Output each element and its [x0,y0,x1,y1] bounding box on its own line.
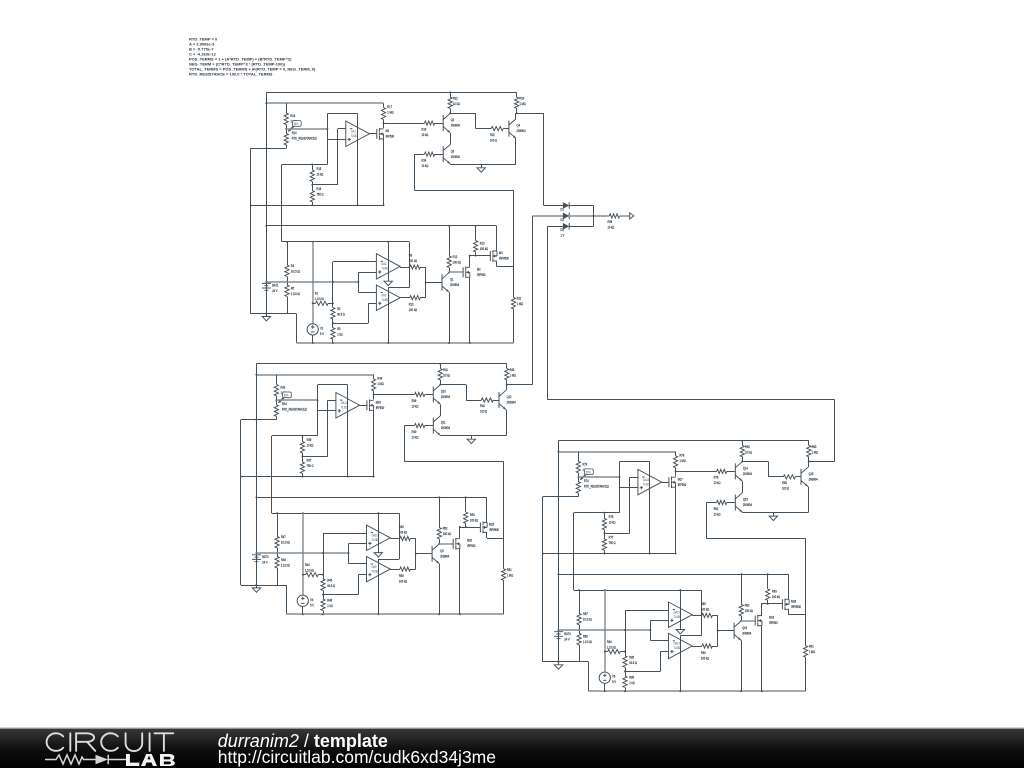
wire [302,606,304,614]
junction [808,461,810,463]
wire to M gate [449,271,463,273]
junction [357,204,359,206]
wire [435,154,444,156]
wire - input stub [358,292,376,294]
wire second rail [266,102,383,104]
wire D2 anode [533,215,563,217]
voltage source V1 5 V [307,324,318,335]
svg-text:IRF530: IRF530 [769,621,778,626]
ground [554,665,562,669]
diode D2 [563,213,569,220]
wire [805,538,807,615]
svg-text:R46: R46 [327,598,332,603]
resistor R91 1M [804,615,808,691]
wire [450,113,476,115]
junction [603,532,605,534]
junction [276,552,278,554]
junction [438,613,440,615]
wire op-amp supply pins [378,513,380,552]
resistor R3 1k [331,328,335,340]
junction [465,496,467,498]
wire + input stub [318,410,336,412]
junction [302,613,304,615]
battery BAT1 24 V [262,283,271,290]
svg-text:R18: R18 [290,114,295,119]
junction [240,476,242,478]
voltage source V4 5 V [297,595,308,606]
wire [486,532,488,538]
svg-text:V5: V5 [612,674,615,679]
ground [467,439,475,443]
wire to Q base [416,553,432,555]
wire [303,574,306,576]
wire [313,303,316,305]
wire [276,416,278,419]
op-amp OA9 [367,556,391,581]
wire emitter [439,564,441,615]
MOSFET M3 (IRF9530) [490,250,497,262]
resistor R74 RTD_RESISTANCE [576,473,580,497]
node block 1 RTD channel [250,92,527,344]
resistor R92 100k [739,604,743,616]
svg-text:R92: R92 [745,603,750,608]
wire to M gate [741,620,755,622]
wire [465,523,467,527]
svg-text:24 V: 24 V [272,289,278,294]
svg-text:1 kΩ: 1 kΩ [629,680,635,685]
svg-text:IRF9530: IRF9530 [791,604,801,609]
transistor Q1 [442,273,449,292]
svg-text:R49: R49 [399,525,404,530]
transistor Q16 [801,467,808,486]
svg-text:IRF530: IRF530 [467,544,476,549]
transistor Q15 [735,493,742,512]
svg-text:10 kΩ: 10 kΩ [714,481,721,486]
svg-text:R93: R93 [772,589,777,594]
junction [415,553,417,555]
wire left bus 2 [240,420,242,585]
resistor R90 100k [692,644,718,648]
svg-text:1.10 kΩ: 1.10 kΩ [281,563,291,568]
wire [788,609,790,615]
junction [469,255,471,257]
svg-text:R73: R73 [583,462,588,467]
output terminal [630,213,634,219]
junction [265,225,267,227]
junction [312,342,314,344]
MOSFET M10 (IRF530) [453,538,460,550]
resistor R38 1M [372,379,376,395]
wire [625,610,627,656]
wire second rail [558,451,675,453]
op-amp OA11 [336,393,360,418]
wire supply rail [574,590,702,592]
svg-text:M1: M1 [386,129,390,134]
junction [741,440,743,442]
wire [506,385,508,391]
svg-text:R40: R40 [412,429,417,434]
wire left bus 2 [542,497,544,662]
resistor R47 10.2k [275,513,279,553]
transistor Q3 [443,145,450,164]
wire [727,502,736,504]
wire source [373,410,375,476]
junction [387,342,389,344]
junction [286,241,288,243]
ground [374,553,382,557]
potentiometer R73 (1 M) [576,452,586,481]
junction [439,363,441,365]
svg-text:R90: R90 [701,651,706,656]
svg-text:10 kΩ: 10 kΩ [714,512,721,517]
op-amp OA10 [367,525,391,550]
wire [604,533,629,535]
resistor R39 10k [415,392,425,396]
wire [420,267,425,269]
svg-text:TL081: TL081 [674,614,681,619]
svg-text:TL081: TL081 [674,646,681,651]
resistor R1 1.10k [313,301,333,305]
junction [332,281,334,283]
wire - input stub [651,640,669,642]
svg-text:10 kΩ: 10 kΩ [307,443,314,448]
wire [805,657,807,691]
wire [276,375,278,385]
svg-text:TL081: TL081 [381,266,388,271]
wire [440,405,442,417]
svg-text:750 Ω: 750 Ω [609,541,617,546]
resistor R78 1M [674,456,678,472]
junction [276,512,278,514]
svg-text:1.10 kΩ: 1.10 kΩ [583,640,593,645]
resistor R34 RTD_RESISTANCE [274,396,278,420]
svg-text:R81: R81 [745,444,750,449]
junction [265,204,267,206]
wire feedback to - input [629,477,631,533]
svg-text:2N3904: 2N3904 [441,426,450,431]
resistor R81 10k [740,445,744,456]
wire [358,575,360,595]
wire to terminal [620,215,630,217]
svg-text:50%: 50% [284,393,289,398]
wire [727,471,736,473]
svg-text:R47: R47 [281,535,286,540]
MOSFET M16 (IRF530) [367,400,374,412]
svg-text:1.10 kΩ: 1.10 kΩ [607,645,617,650]
wire [450,109,452,114]
resistor R9 100k [400,265,426,269]
wire [604,513,606,519]
svg-text:100 kΩ: 100 kΩ [409,259,418,264]
svg-text:R43: R43 [510,367,515,372]
svg-text:R51: R51 [507,567,512,572]
junction [604,589,606,591]
svg-text:Q12: Q12 [507,395,512,400]
junction [373,476,375,478]
svg-text:V4: V4 [310,597,313,602]
wire [692,615,702,617]
wire [513,267,515,298]
wire [558,639,560,662]
wire [410,538,415,540]
wire [333,323,368,325]
wire - input OA2 [323,533,367,535]
resistor R89 100k [692,613,718,617]
junction [326,128,328,130]
junction [679,690,681,692]
resistor R40 10k [415,424,425,428]
svg-text:R37: R37 [307,458,312,463]
wire [476,128,491,130]
wire lower node row [241,476,374,478]
svg-text:TL081: TL081 [372,569,379,574]
wire [515,113,517,119]
wire [486,521,488,523]
wire [256,562,258,585]
wire [496,226,498,251]
wire [506,410,508,436]
resistor R42 100 [481,398,493,402]
svg-text:R74: R74 [584,479,589,484]
transistor Q12 [499,390,506,409]
junction [265,313,267,315]
svg-text:1 MΩ: 1 MΩ [517,301,524,306]
wire cross-couple [650,621,652,641]
resistor R36 10k [300,436,304,456]
wire [625,667,627,676]
svg-text:2N3904: 2N3904 [809,477,818,482]
wire supply rail [282,241,410,243]
wire [449,268,451,273]
wire [327,114,329,165]
junction [448,271,450,273]
wire - input stub [338,128,346,130]
wire [287,297,289,314]
resistor R80 1M [807,441,811,462]
resistor R11 1M [511,267,515,343]
wire [475,113,477,128]
resistor R76 10k [602,513,606,533]
wire [383,120,385,124]
transistor Q11 [433,416,440,435]
wire supply rail [272,513,400,515]
wire [675,468,677,472]
svg-text:R4: R4 [291,263,295,268]
wire [440,384,466,386]
wire [808,462,810,468]
wire reference row [257,552,349,554]
wire [717,615,719,646]
wire [323,533,325,579]
junction [619,476,621,478]
wire [373,391,375,395]
wire + input stub [349,543,367,545]
wire [675,452,677,456]
junction [603,553,605,555]
junction [649,553,651,555]
svg-text:100 kΩ: 100 kΩ [409,308,418,313]
svg-text:100 kΩ: 100 kΩ [701,607,710,612]
svg-text:50%: 50% [294,122,299,127]
wire [404,426,406,462]
junction [741,461,743,463]
wire [619,462,621,513]
wire [503,538,505,569]
wire - input stub [328,400,336,402]
wire block3 output feed [548,399,835,401]
op-amp OA14 [638,469,662,494]
svg-text:750 Ω: 750 Ω [307,464,315,469]
wire op-amp supply pins [680,636,682,691]
wire [578,493,580,496]
wire [439,497,441,527]
svg-text:R56: R56 [608,220,613,225]
wire op-amp output [662,482,669,484]
resistor R51 1M [502,538,506,614]
svg-text:R42: R42 [480,404,485,409]
svg-text:R22: R22 [490,132,495,137]
svg-text:1 MΩ: 1 MΩ [377,382,384,387]
svg-text:1 MΩ: 1 MΩ [510,373,517,378]
junction [302,552,304,554]
wire V+ top rail [266,92,517,94]
wire [266,314,268,317]
wire [604,683,606,691]
wire [266,290,268,313]
wire left bus [256,364,258,588]
svg-text:R52: R52 [443,526,448,531]
wire [277,553,279,556]
wire source [469,277,471,343]
wire op-amp supply pins [680,590,682,629]
wire [312,184,337,186]
svg-text:R41: R41 [443,367,448,372]
junction [347,476,349,478]
wire [450,133,452,145]
battery BAT4 24 V [554,632,563,639]
wire [409,242,411,288]
junction [265,281,267,283]
svg-text:1.10 kΩ: 1.10 kΩ [315,297,325,302]
wire [506,364,508,369]
junction [604,629,606,631]
wire + input stub [358,574,366,576]
resistor R17 1M [381,108,385,124]
resistor R21 10k [448,97,452,108]
svg-text:RTD_RESISTANCEΩ: RTD_RESISTANCEΩ [584,484,609,489]
transistor Q4 [509,119,516,138]
wire [742,481,744,493]
resistor R22 100 [491,127,503,131]
wire [558,630,560,632]
wire wiper to + input [286,128,327,130]
junction [542,553,544,555]
svg-text:R45: R45 [327,578,332,583]
wire [450,163,452,165]
svg-text:TL081: TL081 [351,134,358,139]
svg-text:R11: R11 [517,296,522,301]
svg-text:V1: V1 [320,326,323,331]
junction [302,574,304,576]
wire [440,380,442,385]
svg-text:RTD_RESISTANCEΩ: RTD_RESISTANCEΩ [282,407,307,412]
junction [475,225,477,227]
wire summing node [569,215,609,217]
wire V+ top rail [558,440,809,442]
svg-text:10 kΩ: 10 kΩ [609,520,616,525]
svg-text:100 kΩ: 100 kΩ [480,246,489,251]
svg-text:R19: R19 [422,127,427,132]
svg-text:R9: R9 [409,253,413,258]
junction [301,476,303,478]
svg-text:Q14: Q14 [743,466,748,471]
svg-text:Q11: Q11 [441,420,446,425]
svg-text:R89: R89 [701,602,706,607]
svg-text:M19: M19 [769,615,774,620]
wire block2 output feed [532,216,534,385]
junction [312,302,314,304]
pot wiper callout [292,121,301,127]
svg-text:M3: M3 [499,251,503,256]
wire drain [761,604,763,616]
svg-text:100 kΩ: 100 kΩ [772,595,781,600]
junction [624,651,626,653]
wire [808,457,810,462]
wire [383,103,385,107]
svg-text:1 MΩ: 1 MΩ [679,458,686,463]
op-amp OA1 [346,121,370,146]
wire [604,550,606,553]
junction [250,204,252,206]
wire [323,611,325,615]
resistor R19 10k [425,121,435,125]
wire + input stub [651,620,669,622]
wire [440,364,442,369]
ground [477,168,485,172]
wire to M gate [460,527,481,529]
wire bottom rail [287,613,504,615]
wire [742,461,768,463]
svg-text:R79: R79 [714,475,719,480]
resistor R4 10.2k [285,242,289,282]
junction [448,342,450,344]
wire [788,574,790,599]
wire drain [373,395,375,400]
wire [256,553,258,555]
svg-text:100 kΩ: 100 kΩ [443,532,452,537]
svg-text:R87: R87 [583,612,588,617]
wire + input stub [327,139,345,141]
svg-text:IRF530: IRF530 [477,272,486,277]
junction [438,496,440,498]
resistor R15 10k [310,164,314,184]
wire cross-couple [348,544,350,564]
wire - input OA2 [333,261,377,263]
junction [679,589,681,591]
junction [675,553,677,555]
wire left bus 2 [250,148,252,313]
junction [255,496,257,498]
resistor R83 100 [783,475,795,479]
svg-text:2N3904: 2N3904 [441,395,450,400]
wire [287,282,289,285]
junction [311,184,313,186]
svg-text:IRF530: IRF530 [386,134,395,139]
svg-text:1 MΩ: 1 MΩ [812,450,819,455]
wire wiper to + input [276,399,317,401]
junction [578,589,580,591]
wire [449,226,451,256]
